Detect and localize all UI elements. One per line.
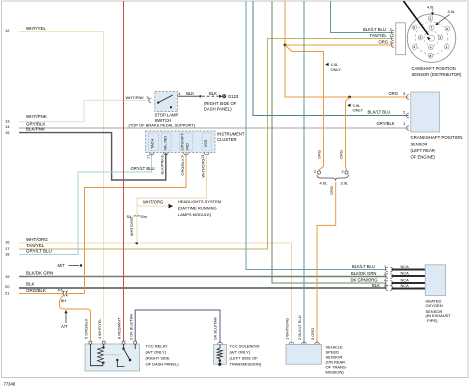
svg-text:2 DK BLU/TAN: 2 DK BLU/TAN	[128, 314, 133, 340]
svg-text:BLK/DK GRN: BLK/DK GRN	[26, 270, 53, 275]
svg-text:ORG: ORG	[339, 150, 344, 159]
svg-text:17: 17	[5, 246, 10, 251]
svg-text:3.9L: 3.9L	[448, 10, 455, 14]
relay pin squares	[89, 341, 137, 344]
svg-text:WHT/ORG: WHT/ORG	[129, 217, 134, 236]
annotation 3.9L ONLY	[347, 104, 350, 107]
wire WHT/YEL row12 to TCC relay pin4	[19, 32, 104, 342]
svg-text:IND: IND	[185, 143, 190, 150]
wire ORG/BLK row21 to F6 connector	[19, 293, 63, 295]
wire ORG from top to camshaft + crankshaft sensors	[285, 1, 409, 97]
wire DK BLU/TAN relay pin2 to solenoid	[135, 310, 220, 343]
svg-text:TAN/YEL: TAN/YEL	[370, 33, 388, 38]
wire BLK/DK GRN row19 to O2 sensor pin2	[19, 276, 387, 278]
svg-text:BLK: BLK	[209, 91, 217, 96]
svg-text:GRY/LT BLU: GRY/LT BLU	[26, 249, 52, 254]
wire BLK/LT BLU from top to distributor pin2	[331, 1, 394, 33]
distributor connector bumps	[391, 30, 393, 47]
wire NCA leads to O2 sensor	[392, 270, 426, 289]
cluster pin bumps	[149, 153, 209, 155]
svg-text:(TOP OF BRAKE PEDAL SUPPORT): (TOP OF BRAKE PEDAL SUPPORT)	[129, 123, 196, 128]
svg-text:TACH: TACH	[150, 139, 155, 149]
svg-text:16: 16	[5, 240, 10, 245]
svg-text:BLK: BLK	[26, 282, 35, 287]
svg-text:8H: 8H	[61, 298, 66, 303]
svg-text:OF ENGINE): OF ENGINE)	[411, 154, 436, 159]
instrument cluster box	[146, 131, 216, 153]
svg-text:(LEFT SIDE OF: (LEFT SIDE OF	[230, 356, 259, 361]
junction ORG 3.9L split	[348, 96, 351, 99]
svg-text:WHT/ORG: WHT/ORG	[143, 200, 163, 205]
svg-text:(RIGHT SIDE: (RIGHT SIDE	[146, 356, 170, 361]
TCC relay box	[85, 344, 140, 371]
svg-text:4 WHT/YEL: 4 WHT/YEL	[97, 318, 102, 339]
svg-text:20: 20	[5, 284, 10, 289]
wire ORG/BLK cluster pin9 to row21/F6/relay	[85, 153, 187, 294]
distributor body circle	[407, 14, 455, 62]
svg-text:BLK/LT BLU: BLK/LT BLU	[363, 27, 386, 32]
svg-text:(A/T ONLY): (A/T ONLY)	[146, 350, 167, 355]
svg-text:OF DASH PANEL): OF DASH PANEL)	[146, 362, 180, 367]
svg-text:ORG: ORG	[389, 91, 399, 96]
svg-text:WHT/PNK: WHT/PNK	[126, 95, 145, 100]
O2 inline connector symbols	[386, 267, 393, 290]
svg-text:2: 2	[342, 170, 344, 174]
svg-text:BLK/PNK: BLK/PNK	[159, 158, 164, 175]
svg-text:LAMPS MODULE): LAMPS MODULE)	[178, 212, 212, 217]
rotor pointer thick line	[404, 1, 429, 35]
svg-text:INSTRUMENT: INSTRUMENT	[217, 132, 245, 137]
svg-text:SENSOR: SENSOR	[411, 141, 428, 146]
svg-text:ORG/BLK: ORG/BLK	[26, 288, 46, 293]
svg-text:BLK: BLK	[372, 283, 380, 288]
wire BLK/LT BLU from top to O2 sensor pin1	[246, 1, 387, 270]
wire WHT/ORG row16 to vehicle speed sensor pin1	[19, 243, 292, 345]
annotation 4.0L ONLY	[325, 63, 328, 66]
svg-text:ORG: ORG	[329, 186, 334, 195]
svg-text:G123: G123	[228, 94, 239, 99]
cluster compartments	[149, 133, 212, 151]
svg-text:DK BLU/TAN: DK BLU/TAN	[213, 317, 218, 340]
svg-text:(RIGHT SIDE OF: (RIGHT SIDE OF	[204, 101, 237, 106]
wire BLK switch to G123	[178, 95, 199, 97]
svg-text:CLUSTER: CLUSTER	[217, 137, 237, 142]
svg-text:BLK: BLK	[186, 91, 194, 96]
distributor connector box	[396, 23, 406, 55]
vehicle speed sensor box	[286, 344, 322, 364]
svg-text:OXYGEN: OXYGEN	[426, 303, 443, 308]
svg-text:18: 18	[5, 252, 10, 257]
crank sensor connector bumps	[406, 95, 408, 131]
svg-text:17: 17	[146, 155, 150, 159]
svg-text:5 ORG/BLK: 5 ORG/BLK	[84, 318, 89, 339]
wire ORG merged to VSS pin3	[317, 182, 336, 345]
wire WHT/ORG cluster pin13 to S4 and row16	[137, 153, 207, 243]
solenoid coil	[219, 344, 221, 348]
svg-text:CAMSHAFT POSITION: CAMSHAFT POSITION	[412, 66, 456, 71]
wire GRY/BLK row14 to crankshaft sensor pin1	[19, 127, 409, 129]
heated oxygen sensor box	[425, 265, 446, 296]
svg-text:19: 19	[5, 274, 10, 279]
svg-text:CRANKSHAFT POSITION: CRANKSHAFT POSITION	[411, 135, 463, 140]
svg-text:BLK/LT BLU: BLK/LT BLU	[352, 264, 375, 269]
wire ORG 4.0L branch	[285, 45, 324, 171]
svg-text:S4: S4	[127, 214, 133, 219]
svg-text:4.0L: 4.0L	[320, 181, 329, 186]
svg-text:HEADLIGHTS SYSTEM: HEADLIGHTS SYSTEM	[178, 199, 221, 204]
svg-text:BLK/PNK: BLK/PNK	[26, 127, 45, 132]
wire BLK/LT BLU from top to VSS pin2	[303, 1, 305, 345]
svg-text:M/T: M/T	[58, 263, 66, 268]
wire GRY/LT BLU row18 to instrument cluster pin17	[19, 153, 152, 255]
svg-text:NCA: NCA	[401, 271, 410, 276]
junction WHT/ORG row16 x cluster branch	[136, 242, 139, 245]
svg-text:3 ORG: 3 ORG	[310, 328, 315, 340]
svg-text:NCA: NCA	[401, 283, 410, 288]
wire WHT/PNK row13 to stop lamp switch	[19, 100, 151, 121]
wire TAN/YEL row17 up to distributor pin1	[19, 39, 394, 250]
svg-text:ORG: ORG	[317, 150, 322, 159]
svg-text:BLK/DK GRN: BLK/DK GRN	[351, 271, 376, 276]
svg-text:TCC RELAY: TCC RELAY	[146, 344, 168, 349]
ground G123	[219, 95, 222, 98]
svg-text:BLK/LT BLU: BLK/LT BLU	[368, 109, 391, 114]
svg-text:21: 21	[5, 291, 10, 296]
wire BLK/LT BLU from top to crankshaft sensor pin2	[253, 1, 409, 116]
connector bump switch pin3	[149, 98, 151, 103]
svg-text:GRY/BLK: GRY/BLK	[377, 121, 395, 126]
brace 4.0L/3.9L merge	[317, 175, 349, 180]
svg-text:8 RED/WHT: 8 RED/WHT	[117, 317, 122, 339]
svg-text:13: 13	[5, 119, 10, 124]
svg-text:13: 13	[201, 155, 205, 159]
svg-text:ORG: ORG	[379, 40, 389, 45]
svg-text:TAN/YEL: TAN/YEL	[26, 243, 45, 248]
wire ORG 3.9L branch	[346, 97, 350, 171]
svg-text:ONLY: ONLY	[353, 108, 364, 113]
TCC solenoid box	[214, 344, 227, 364]
svg-text:WHT/ORG: WHT/ORG	[200, 159, 205, 178]
stop lamp switch S1 box	[155, 92, 178, 112]
svg-text:NCA: NCA	[401, 278, 410, 283]
wire BLK/PNK row15 to instrument cluster pin8	[19, 133, 166, 180]
svg-text:WHT/PNK: WHT/PNK	[26, 114, 47, 119]
wire DK GRN/ORG from top to O2 sensor pin4	[272, 1, 387, 283]
svg-text:ONLY: ONLY	[331, 67, 342, 72]
svg-text:3.9L: 3.9L	[341, 181, 350, 186]
wire RED/WHT from top to TCC relay pin8	[123, 1, 125, 341]
wire WHT/ORG branch to headlights system	[137, 205, 168, 207]
svg-text:VSS: VSS	[203, 139, 208, 147]
svg-text:14: 14	[5, 124, 10, 129]
relay coil	[90, 344, 102, 366]
svg-text:77348: 77348	[4, 382, 16, 387]
svg-text:2 BLK/LT BLU: 2 BLK/LT BLU	[297, 315, 302, 340]
svg-text:(LEFT REAR: (LEFT REAR	[411, 148, 435, 153]
wire BLK row20 to O2 sensor pin5	[19, 287, 387, 289]
svg-text:15: 15	[5, 130, 10, 135]
svg-text:PIPE): PIPE)	[427, 318, 438, 323]
svg-text:DASH PANEL): DASH PANEL)	[204, 107, 232, 112]
svg-text:DK GRN/ORG: DK GRN/ORG	[351, 277, 378, 282]
svg-text:12: 12	[5, 28, 10, 33]
svg-text:STOP LAMP: STOP LAMP	[155, 113, 179, 118]
svg-text:S/m: S/m	[141, 215, 147, 219]
crankshaft position sensor box	[411, 92, 440, 132]
svg-text:A/T: A/T	[61, 324, 68, 329]
svg-text:WHT/YEL: WHT/YEL	[26, 26, 46, 31]
svg-text:MISSION): MISSION)	[326, 369, 345, 374]
svg-text:2: 2	[314, 170, 316, 174]
wire ORG/BLK F6 to relay pin5 and junction with cluster pin9 drop	[69, 293, 85, 295]
svg-text:NCA: NCA	[401, 264, 410, 269]
junction ORG 4.0L split	[284, 44, 287, 47]
svg-text:(DAYTIME RUNNING: (DAYTIME RUNNING	[178, 206, 217, 211]
svg-text:TCC SOLENOID: TCC SOLENOID	[230, 344, 260, 349]
relay mechanical link dashed	[106, 354, 122, 356]
svg-text:GRY/LT BLU: GRY/LT BLU	[131, 166, 155, 171]
switch contacts	[157, 102, 159, 104]
svg-text:MIL IND: MIL IND	[163, 136, 168, 150]
svg-text:4.0L: 4.0L	[427, 5, 434, 9]
relay switch	[123, 344, 125, 348]
svg-text:WHT/ORG: WHT/ORG	[26, 237, 48, 242]
svg-text:8: 8	[160, 155, 164, 157]
svg-text:9: 9	[181, 155, 185, 157]
svg-text:(A/T ONLY): (A/T ONLY)	[230, 350, 251, 355]
distributor tower pins	[412, 16, 450, 58]
svg-text:F6: F6	[58, 288, 63, 293]
svg-text:SENSOR (DISTRIBUTOR): SENSOR (DISTRIBUTOR)	[412, 72, 463, 77]
svg-text:ORG/BLK: ORG/BLK	[180, 158, 185, 176]
svg-text:1 WHT/ORG: 1 WHT/ORG	[285, 318, 290, 340]
svg-text:TRANSMISSION): TRANSMISSION)	[230, 362, 262, 367]
